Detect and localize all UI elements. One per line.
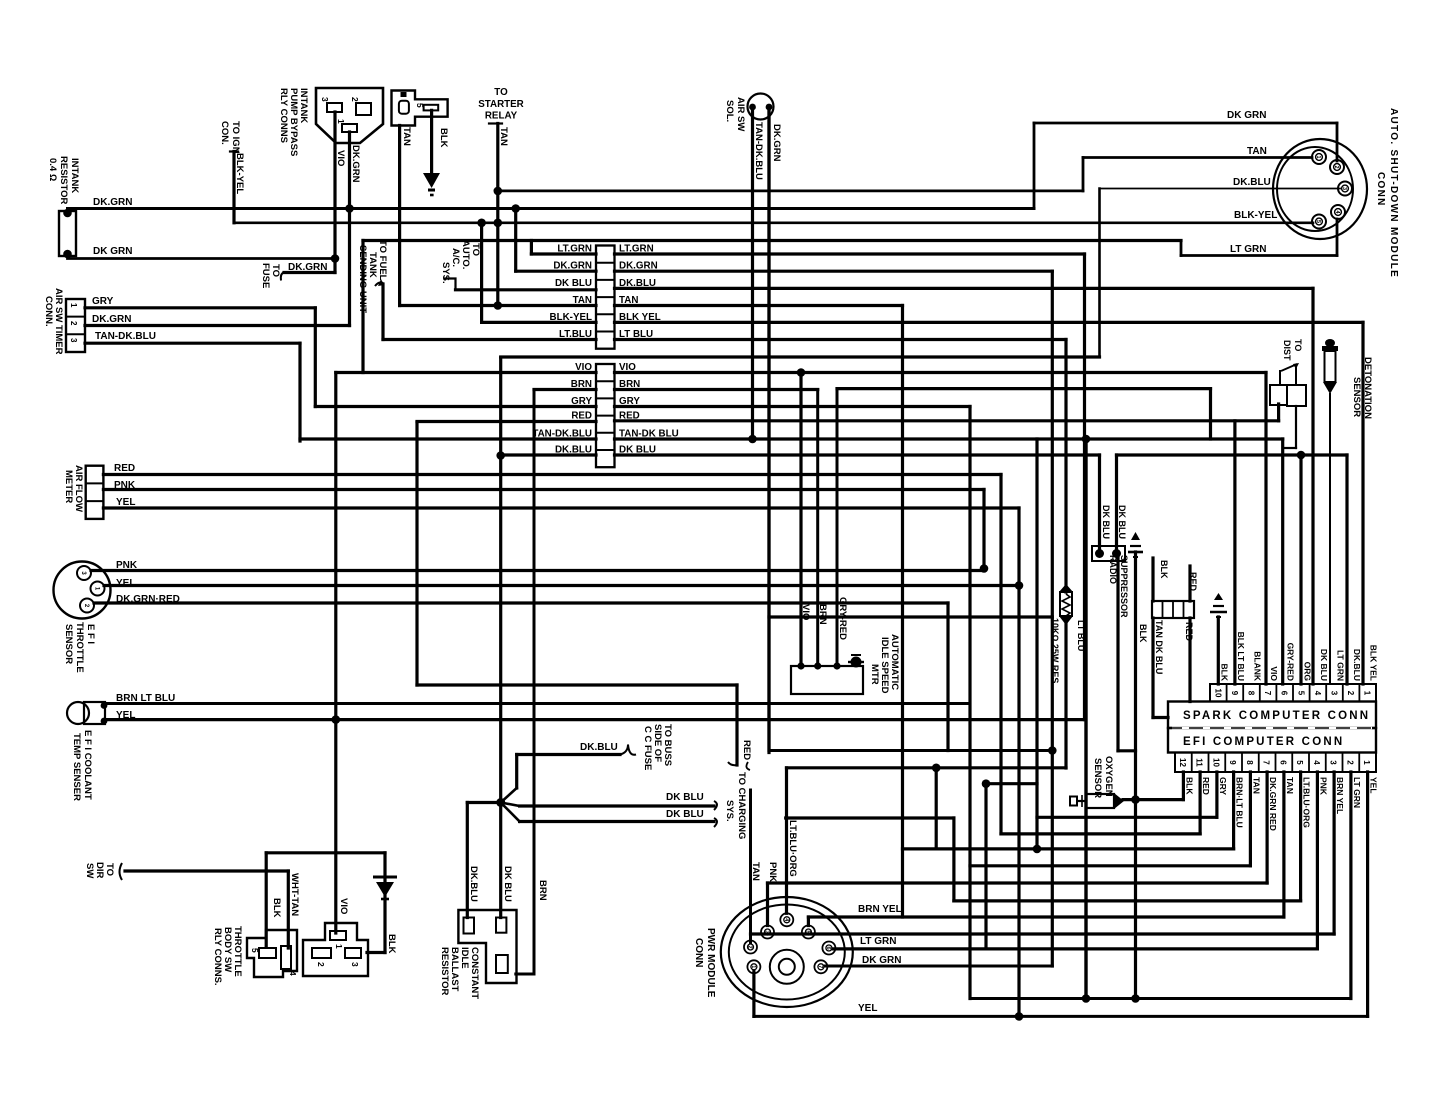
svg-text:VIO: VIO	[335, 150, 346, 166]
connector inline 6-cell upper	[596, 246, 615, 349]
wire	[480, 223, 483, 323]
svg-text:VIO: VIO	[575, 362, 592, 373]
intank resistor R-intank	[59, 211, 76, 256]
junction	[797, 662, 804, 669]
svg-text:LT GRN: LT GRN	[1230, 244, 1266, 255]
wire	[94, 601, 948, 604]
junction	[797, 368, 806, 377]
svg-text:GRY: GRY	[1218, 777, 1228, 795]
wire	[498, 189, 1083, 192]
svg-text:DIR: DIR	[94, 862, 105, 879]
svg-text:DK.GRN: DK.GRN	[350, 145, 361, 183]
wire	[85, 306, 315, 309]
svg-text:DK.GRN: DK.GRN	[771, 124, 782, 162]
ground (blk line)	[1128, 551, 1143, 554]
svg-text:TAN-DK.BLU: TAN-DK.BLU	[532, 429, 592, 440]
wire	[68, 207, 1035, 210]
wire	[735, 685, 738, 765]
ground (throttle body)	[373, 876, 397, 879]
wire	[104, 584, 1019, 587]
wire	[501, 803, 520, 807]
svg-text:WHT-TAN: WHT-TAN	[289, 873, 300, 916]
svg-text:DK.BLU: DK.BLU	[619, 278, 656, 289]
pwr pin 6	[822, 942, 835, 955]
svg-text:TEMP SENSER: TEMP SENSER	[71, 733, 82, 801]
svg-text:A/C.: A/C.	[450, 248, 461, 267]
junction	[477, 219, 486, 228]
svg-text:BLK-YEL: BLK-YEL	[234, 153, 245, 194]
wire	[1188, 618, 1191, 702]
junction	[1131, 795, 1140, 804]
wire	[1215, 772, 1218, 817]
wire	[417, 420, 596, 423]
svg-text:AIR SW: AIR SW	[735, 97, 746, 131]
wire	[516, 973, 534, 976]
wire	[968, 407, 971, 999]
svg-text:LT BLU: LT BLU	[619, 329, 653, 340]
svg-text:LT.BLU: LT.BLU	[559, 329, 592, 340]
ground (starter conn BLK)	[423, 173, 440, 188]
wire	[1115, 455, 1118, 549]
wire	[1316, 772, 1319, 949]
wire	[1233, 421, 1236, 684]
svg-text:SENSOR: SENSOR	[1351, 377, 1362, 417]
svg-text:DK GRN: DK GRN	[93, 246, 132, 257]
wire	[767, 110, 770, 753]
svg-text:3: 3	[764, 930, 770, 933]
wire	[615, 321, 1364, 324]
svg-text:GRY-RED: GRY-RED	[1286, 643, 1296, 681]
red hook	[728, 762, 737, 765]
svg-text:RED: RED	[1184, 622, 1194, 642]
wire	[970, 864, 1250, 867]
wire	[514, 209, 517, 272]
wire	[1117, 453, 1348, 456]
svg-text:CONN: CONN	[1375, 172, 1386, 207]
svg-text:TAN: TAN	[750, 862, 761, 881]
junction	[63, 209, 72, 218]
svg-text:2: 2	[316, 962, 326, 967]
junction	[1082, 435, 1091, 444]
svg-text:1: 1	[1315, 155, 1321, 158]
wire	[417, 683, 737, 686]
svg-text:PNK: PNK	[116, 560, 138, 571]
svg-text:PNK: PNK	[767, 862, 778, 882]
wire	[105, 702, 970, 705]
svg-text:RELAY: RELAY	[485, 111, 518, 122]
pwr module conn circle	[721, 897, 853, 1007]
wire	[1281, 439, 1284, 684]
efi coolant temp senser	[67, 702, 89, 724]
wire	[615, 338, 1067, 341]
svg-text:BRN LT BLU: BRN LT BLU	[116, 693, 175, 704]
svg-text:0.4 Ω: 0.4 Ω	[47, 158, 58, 181]
wire	[520, 820, 714, 823]
wire	[1083, 254, 1086, 720]
svg-text:1: 1	[334, 944, 344, 949]
wire	[1277, 405, 1279, 421]
junction	[1048, 746, 1057, 755]
wire	[367, 951, 385, 954]
junction	[1095, 549, 1104, 558]
svg-text:INTANK: INTANK	[298, 88, 309, 123]
wire	[103, 506, 1019, 509]
svg-text:TO IGN: TO IGN	[230, 121, 241, 154]
svg-text:12: 12	[1178, 758, 1187, 767]
spark computer conn box	[1168, 702, 1376, 729]
svg-text:BLK YEL: BLK YEL	[619, 312, 661, 323]
svg-text:YEL: YEL	[116, 710, 135, 721]
wire	[1336, 219, 1339, 256]
wire	[501, 788, 517, 803]
svg-text:AUTO. SHUT-DOWN MODULE: AUTO. SHUT-DOWN MODULE	[1388, 108, 1399, 278]
svg-text:BLK: BLK	[438, 128, 449, 148]
wire	[769, 615, 1052, 618]
throttle pin 3	[77, 566, 91, 580]
svg-text:LT.BLU·ORG: LT.BLU·ORG	[1302, 777, 1312, 828]
wire	[1299, 455, 1302, 684]
pwr pin 1	[747, 960, 760, 973]
wire	[381, 284, 384, 340]
wire	[615, 437, 1283, 440]
svg-text:BRN: BRN	[571, 379, 592, 390]
wire	[515, 755, 518, 789]
wire	[1116, 558, 1119, 751]
connector inline 6-cell lower	[596, 364, 615, 467]
svg-text:10: 10	[1211, 758, 1220, 767]
wire	[383, 338, 596, 341]
svg-text:TAN: TAN	[619, 295, 638, 306]
wire	[903, 847, 1234, 850]
svg-text:11: 11	[1195, 758, 1204, 767]
wire	[1153, 716, 1168, 719]
wire	[825, 965, 1052, 968]
svg-text:2: 2	[1346, 691, 1355, 696]
svg-text:TAN-DK.BLU: TAN-DK.BLU	[753, 122, 764, 180]
svg-text:SYS.: SYS.	[724, 800, 735, 822]
wire	[807, 917, 810, 926]
wire	[287, 871, 290, 948]
junction	[496, 451, 505, 460]
svg-text:TAN DK BLU: TAN DK BLU	[1154, 620, 1164, 674]
wire	[398, 126, 401, 306]
svg-text:BLK: BLK	[1138, 624, 1148, 643]
svg-text:MTR: MTR	[869, 664, 880, 685]
wire	[1283, 447, 1296, 449]
wire	[901, 306, 904, 918]
wire	[615, 252, 1085, 255]
svg-text:VIO: VIO	[619, 362, 636, 373]
wire	[766, 883, 769, 926]
wire	[1001, 832, 1200, 835]
wire	[1264, 373, 1267, 685]
wire	[808, 915, 1284, 918]
wire	[767, 110, 770, 751]
wire	[314, 308, 317, 407]
air sw sol connector	[748, 94, 774, 120]
junction	[494, 219, 503, 228]
svg-text:BODY SW: BODY SW	[222, 927, 233, 972]
svg-text:GRY: GRY	[92, 296, 114, 307]
svg-text:DK.BLU: DK.BLU	[1352, 649, 1362, 681]
svg-text:RESISTOR: RESISTOR	[58, 156, 69, 205]
wire	[68, 257, 336, 260]
svg-text:RADIO: RADIO	[1108, 555, 1118, 584]
svg-text:TAN-DK.BLU: TAN-DK.BLU	[95, 331, 156, 342]
svg-text:3: 3	[1329, 760, 1338, 765]
wire	[970, 997, 1351, 1000]
svg-text:SIDE OF: SIDE OF	[652, 724, 663, 762]
junction	[980, 564, 989, 573]
oxygen sensor	[1070, 797, 1077, 806]
wire	[516, 270, 596, 273]
wire	[615, 287, 1314, 290]
module pin 3	[1338, 182, 1352, 196]
wire	[799, 373, 802, 667]
wire	[103, 488, 984, 491]
wire	[361, 241, 364, 373]
wire	[232, 152, 235, 223]
wire	[1051, 271, 1054, 966]
wire	[769, 749, 1052, 752]
svg-text:2: 2	[350, 97, 360, 102]
svg-text:LT BLU: LT BLU	[1076, 620, 1086, 651]
svg-text:DK BLU: DK BLU	[666, 809, 704, 820]
wire	[1332, 772, 1335, 934]
svg-text:TAN: TAN	[1285, 777, 1295, 794]
svg-text:BRN: BRN	[619, 379, 640, 390]
wire	[836, 389, 839, 666]
wire	[1123, 798, 1183, 801]
svg-text:YEL: YEL	[1369, 777, 1379, 794]
detonation sensor	[1325, 339, 1335, 347]
wire	[1084, 439, 1087, 999]
svg-text:TO: TO	[104, 863, 115, 876]
svg-text:TO BUSS: TO BUSS	[662, 724, 673, 766]
wire	[333, 259, 336, 273]
connector throttle body sw 1/2/3	[303, 923, 368, 976]
wire	[986, 782, 1037, 785]
junction	[345, 204, 354, 213]
svg-text:EFI COMPUTER CONN: EFI COMPUTER CONN	[1183, 736, 1344, 748]
svg-text:9: 9	[1230, 691, 1239, 696]
svg-text:GRY-RED: GRY-RED	[837, 597, 848, 640]
to dist arrow	[1281, 364, 1297, 371]
svg-text:DK BLU: DK BLU	[1117, 505, 1127, 539]
wire	[520, 804, 714, 807]
junction	[833, 662, 840, 669]
wire	[1209, 389, 1212, 439]
svg-text:DK BLU: DK BLU	[619, 445, 656, 456]
junction	[1297, 451, 1306, 460]
wire	[489, 122, 502, 124]
junction	[982, 779, 991, 788]
efi throttle sensor circle	[54, 562, 111, 619]
junction	[496, 798, 505, 807]
svg-text:4: 4	[1312, 760, 1321, 765]
svg-text:DETONATION: DETONATION	[1362, 357, 1373, 419]
svg-text:VIO: VIO	[1269, 666, 1279, 681]
svg-text:5: 5	[1315, 220, 1321, 223]
svg-text:BLANK: BLANK	[1253, 651, 1263, 682]
svg-text:SENSOR: SENSOR	[1092, 758, 1103, 798]
svg-text:TO FUEL: TO FUEL	[377, 240, 388, 281]
junction	[766, 104, 773, 111]
svg-text:PNK: PNK	[114, 480, 136, 491]
wire	[1134, 552, 1137, 999]
wire	[615, 453, 1100, 456]
wire	[1361, 322, 1364, 684]
fuel-sending hook	[375, 282, 383, 286]
svg-text:3: 3	[1330, 691, 1339, 696]
svg-text:BLK-YEL: BLK-YEL	[550, 312, 592, 323]
svg-text:TO: TO	[1293, 339, 1303, 351]
pwr pin 3	[761, 926, 774, 939]
wire	[230, 150, 238, 152]
svg-text:1: 1	[1362, 760, 1371, 765]
wire	[530, 241, 533, 255]
connector constant idle ballast resistor	[458, 910, 516, 983]
svg-text:VIO: VIO	[338, 898, 349, 914]
wire	[785, 768, 788, 914]
junction	[814, 662, 821, 669]
wire	[1082, 158, 1085, 191]
pwr pin 5	[802, 926, 815, 939]
wire	[1265, 772, 1268, 883]
svg-text:GRY: GRY	[619, 396, 640, 407]
svg-text:DK.BLU: DK.BLU	[1233, 177, 1271, 188]
svg-text:RED: RED	[741, 740, 752, 760]
svg-text:DK BLU: DK BLU	[1101, 505, 1111, 539]
svg-text:DK.BLU: DK.BLU	[580, 742, 618, 753]
wire	[1151, 558, 1154, 601]
svg-text:VIO: VIO	[800, 604, 811, 620]
svg-text:1: 1	[750, 965, 756, 968]
wire	[1180, 241, 1183, 256]
svg-text:DK BLU: DK BLU	[502, 866, 513, 902]
svg-text:DIST: DIST	[1282, 340, 1292, 361]
junction	[1082, 994, 1091, 1003]
wire	[751, 932, 1335, 935]
svg-text:6: 6	[825, 946, 831, 949]
svg-text:DK.BLU: DK.BLU	[555, 445, 592, 456]
wire	[1295, 367, 1297, 385]
automatic idle speed mtr box	[791, 666, 863, 694]
svg-text:RLY CONNS: RLY CONNS	[278, 88, 289, 143]
wire	[333, 112, 336, 259]
wire	[982, 490, 985, 569]
svg-text:AUTO.: AUTO.	[460, 240, 471, 269]
svg-text:BRN: BRN	[537, 880, 548, 901]
svg-text:3: 3	[320, 97, 330, 102]
wire	[1118, 749, 1136, 752]
wire	[1098, 189, 1101, 358]
svg-text:DK GRN: DK GRN	[1227, 110, 1266, 121]
svg-text:DK.BLU: DK.BLU	[468, 866, 479, 902]
wire	[615, 419, 1279, 422]
wire	[531, 252, 596, 255]
wire	[105, 718, 1085, 721]
svg-text:RED: RED	[619, 410, 640, 421]
wire	[1232, 772, 1235, 849]
svg-text:1: 1	[1363, 691, 1372, 696]
svg-text:TAN: TAN	[1251, 777, 1261, 794]
junction	[1033, 845, 1042, 854]
svg-text:SYS.: SYS.	[440, 262, 451, 284]
svg-text:8: 8	[1245, 760, 1254, 765]
svg-text:BRN YEL: BRN YEL	[858, 904, 902, 915]
wire	[786, 816, 954, 819]
wire	[1345, 455, 1348, 684]
wire	[1037, 816, 1217, 819]
svg-text:SENDING UNIT: SENDING UNIT	[357, 245, 368, 313]
module pin 4	[1331, 205, 1345, 219]
wire	[85, 324, 350, 327]
svg-text:INTANK: INTANK	[69, 158, 80, 193]
wire	[348, 132, 351, 326]
wire	[1198, 772, 1201, 834]
wire	[1336, 123, 1339, 161]
junction	[511, 204, 520, 213]
to-dir-sw hook	[120, 863, 123, 880]
buss hook	[620, 745, 636, 755]
wire	[935, 768, 938, 849]
wire	[1299, 772, 1302, 901]
connector intank pump bypass rly conns	[316, 88, 383, 143]
svg-text:DK BLU: DK BLU	[666, 792, 704, 803]
svg-text:1: 1	[69, 303, 78, 308]
wire	[1017, 508, 1020, 1016]
junction	[1015, 1012, 1024, 1021]
wire	[1366, 772, 1369, 1016]
wire	[284, 271, 335, 274]
svg-text:PWR MODULE: PWR MODULE	[705, 928, 716, 998]
svg-text:OXYGEN: OXYGEN	[1103, 756, 1114, 797]
wire	[954, 899, 1301, 902]
wire	[768, 881, 1268, 884]
to dist boxes	[1270, 385, 1287, 405]
junction	[63, 250, 72, 259]
svg-text:BLK: BLK	[386, 934, 397, 954]
wire	[517, 753, 620, 756]
wire	[501, 355, 1100, 358]
svg-text:STARTER: STARTER	[478, 99, 524, 110]
wire	[833, 947, 1317, 950]
svg-text:LT.BLU·ORG: LT.BLU·ORG	[787, 820, 798, 877]
svg-text:TAN: TAN	[401, 127, 412, 146]
svg-text:2: 2	[1345, 760, 1354, 765]
svg-text:BLK: BLK	[1159, 560, 1169, 579]
svg-text:BRN·LT BLU: BRN·LT BLU	[1235, 777, 1245, 828]
wire	[615, 270, 1053, 273]
wire	[266, 851, 385, 854]
svg-text:TO: TO	[270, 264, 281, 277]
wire	[383, 853, 386, 953]
svg-text:RED: RED	[1188, 572, 1198, 592]
svg-text:DK.GRN: DK.GRN	[93, 197, 132, 208]
svg-text:5: 5	[804, 930, 810, 933]
svg-text:DK.GRN: DK.GRN	[619, 261, 658, 272]
svg-text:SUPPRESSOR: SUPPRESSOR	[1119, 555, 1129, 618]
wire	[482, 321, 596, 324]
svg-text:BLK: BLK	[1184, 777, 1194, 795]
wire	[787, 766, 1067, 769]
svg-text:TAN: TAN	[573, 295, 592, 306]
wire	[534, 388, 596, 391]
wire	[91, 569, 984, 572]
module pin 2	[1330, 160, 1344, 174]
svg-text:TAN-DK BLU: TAN-DK BLU	[619, 429, 679, 440]
